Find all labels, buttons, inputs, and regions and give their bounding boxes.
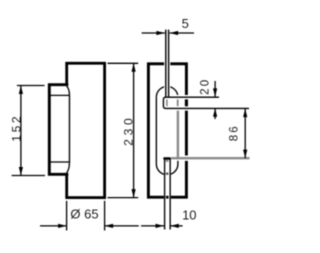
upper rod left line (165, 30, 167, 97)
dim D65 arrow left-pointing (105, 224, 114, 228)
upper rod white fill (164, 30, 170, 97)
dim D65 line right (105, 225, 139, 227)
svg-text:Ø 65: Ø 65 (70, 206, 98, 221)
dim 86 arrow up (243, 109, 247, 118)
dim 230 line (133, 63, 135, 197)
dim D65 line left (40, 225, 67, 227)
dim D65 extension line left (66, 201, 68, 231)
dim 230 arrow down (132, 189, 136, 198)
slot bottom arc (156, 164, 178, 175)
dim 5 arrow left-pointing (170, 31, 179, 35)
spigot junction line (69, 95, 71, 162)
hidden rod line in band (gray dash) (166, 99, 168, 106)
dim 86 line (244, 109, 246, 159)
dim 230 extension line bottom (108, 197, 139, 199)
svg-text:152: 152 (9, 114, 23, 142)
lower rod left line (164, 159, 166, 230)
dim 5 line right (170, 32, 194, 34)
dim 10 arrow right-pointing (156, 224, 165, 228)
gray slide line horizontal (171, 157, 249, 159)
lower rod white fill (164, 159, 171, 230)
slot right edge lower black part (177, 161, 179, 164)
plate right edge between band lines (185, 99, 188, 106)
dim 10 line left (141, 225, 164, 227)
fillet curve top (67, 86, 70, 95)
hidden arc dash behind rod (166, 173, 169, 175)
pin band white fill (162, 97, 183, 110)
dim D65 arrow right-pointing (58, 224, 67, 228)
pin band top line casing (170, 95, 219, 99)
dim D65 extension line right (104, 201, 106, 231)
svg-text:5: 5 (182, 16, 189, 31)
dim 86 arrow down (243, 150, 247, 159)
dim 5 arrow right-pointing (156, 31, 165, 35)
upper rod right line (168, 30, 170, 97)
gray slide line horizontal casing (171, 155, 249, 160)
slot top arc (156, 86, 178, 97)
svg-text:86: 86 (228, 124, 240, 141)
dim 152 arrow down (19, 167, 23, 176)
plate outline (148, 64, 186, 197)
slot left edge (155, 97, 157, 164)
pin band bottom line casing (170, 106, 249, 110)
housing body outline (67, 63, 105, 197)
svg-text:10: 10 (182, 208, 196, 223)
gray slide line vertical (177, 97, 179, 159)
dim 20 lower tail (214, 108, 216, 119)
dim 20 arrow down (213, 88, 217, 97)
hidden gray dash below cap (166, 160, 169, 162)
dim 230 arrow up (132, 63, 136, 72)
plate bottom edge through rod (166, 196, 169, 199)
dim 5 line left (142, 32, 165, 34)
svg-text:20: 20 (199, 78, 211, 95)
lower rod top cap (163, 157, 171, 159)
fillet curve bottom (67, 162, 70, 173)
pin band outline (163, 97, 249, 108)
dim 20 upper tail (214, 81, 216, 97)
spigot (cylinder) outline (49, 85, 68, 175)
dim 152 extension line top (17, 85, 45, 87)
dim 230 extension line top (108, 62, 139, 64)
dim 152 arrow up (19, 86, 23, 95)
svg-text:230: 230 (122, 114, 136, 145)
dim 152 line (20, 86, 22, 176)
dim 10 arrow left-pointing (170, 224, 179, 228)
dim 20 arrow up (213, 108, 217, 117)
spigot chamfer edge bottom (48, 161, 69, 163)
dim 10 line right (170, 225, 182, 227)
spigot chamfer edge top (48, 94, 69, 96)
lower rod right line (169, 159, 171, 230)
hidden slot edge in band (gray dash) (177, 99, 179, 106)
dim 152 extension line bottom (12, 175, 45, 177)
